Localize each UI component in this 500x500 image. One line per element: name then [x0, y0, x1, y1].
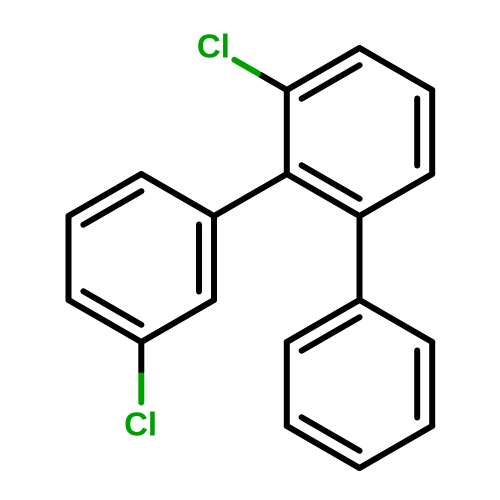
benzene ring A: A (central) [287, 48, 432, 216]
svg-text:Cl: Cl [197, 28, 230, 65]
bond C-Cl (top): carbon half [261, 75, 287, 90]
bond C-Cl (bottom): chlorine half [138, 375, 144, 402]
svg-text:Cl: Cl [124, 406, 157, 443]
bond C-Cl (bottom): carbon half [138, 342, 144, 372]
bond C-Cl (top): chlorine half [234, 60, 258, 74]
wire: biphenyl bond ring A to ring C [357, 216, 363, 300]
wire: biphenyl bond ring A to ring B [214, 174, 287, 216]
benzene ring C: C (lower phenyl) [287, 300, 432, 468]
benzene ring B: B (left, 3-chlorophenyl) [69, 174, 215, 342]
